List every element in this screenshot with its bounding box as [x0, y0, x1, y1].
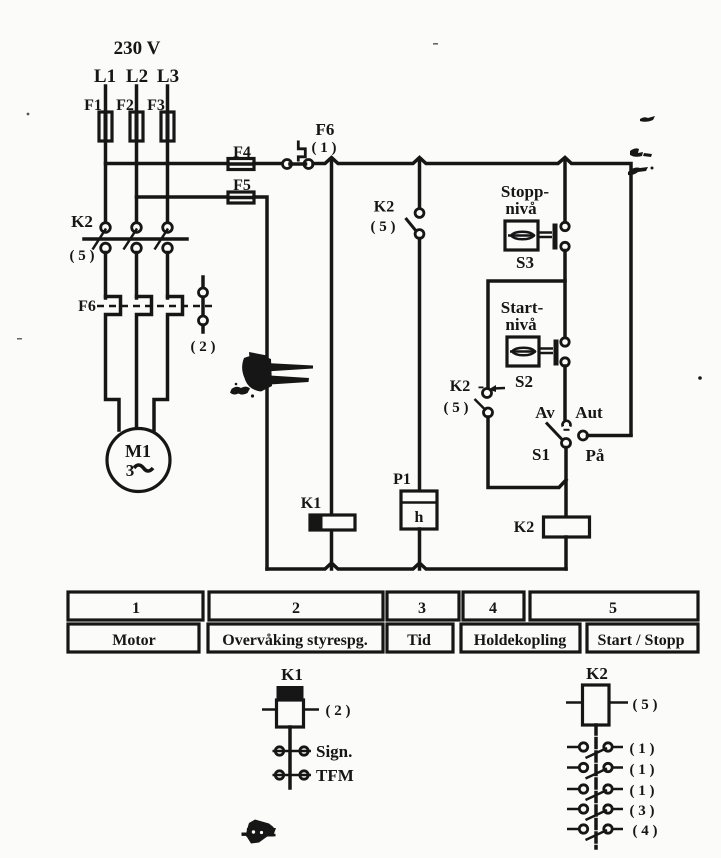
ink smudge center-left — [230, 352, 313, 398]
svg-text:nivå: nivå — [505, 315, 537, 334]
svg-text:L1: L1 — [94, 66, 116, 87]
coil K1 delayed — [277, 686, 304, 700]
svg-text:F6: F6 — [78, 298, 96, 315]
ink blob bottom left — [242, 820, 277, 844]
contact (1) c — [567, 783, 655, 800]
contact TFM — [275, 771, 283, 779]
svg-text:K1: K1 — [281, 665, 303, 684]
svg-text:Aut: Aut — [575, 403, 603, 422]
dashed linkage line — [594, 725, 598, 848]
svg-text:4: 4 — [489, 600, 497, 617]
wire holding contact down — [488, 417, 566, 488]
svg-text:K2: K2 — [374, 199, 394, 216]
wire L2 vertical — [135, 86, 139, 223]
dashed trip line — [97, 305, 216, 308]
wire bottom bus — [267, 563, 566, 569]
wire phases to overload — [104, 253, 108, 299]
wire branch L2 to F5 — [137, 195, 229, 199]
svg-text:P1: P1 — [393, 471, 411, 488]
table cell 4 — [463, 592, 524, 620]
svg-text:( 5 ): ( 5 ) — [70, 248, 95, 264]
slash pole3 — [155, 229, 169, 250]
wire F5 down left side of control circuit — [254, 197, 267, 569]
coil K2 — [583, 685, 610, 725]
svg-text:nivå: nivå — [505, 199, 537, 218]
svg-text:( 5 ): ( 5 ) — [444, 400, 469, 416]
table cell Start/Stopp — [587, 624, 698, 652]
wire P1 branch upper — [418, 161, 422, 208]
svg-text:S2: S2 — [515, 372, 533, 391]
svg-text:( 1 ): ( 1 ) — [630, 783, 655, 799]
table cell 1 — [68, 592, 203, 620]
svg-text:( 5 ): ( 5 ) — [633, 697, 658, 713]
svg-text:230 V: 230 V — [114, 38, 161, 59]
svg-text:TFM: TFM — [316, 766, 354, 785]
svg-text:Tid: Tid — [407, 632, 431, 649]
wire L1 vertical — [104, 86, 108, 223]
svg-text:K2: K2 — [71, 212, 93, 231]
table cell 3 — [387, 592, 459, 620]
wire L3 vertical — [166, 86, 170, 223]
wire F4 to F6 contact — [254, 162, 283, 166]
linkage bar K2 — [84, 237, 187, 241]
svg-text:h: h — [415, 509, 424, 526]
svg-text:2: 2 — [292, 600, 300, 617]
svg-text:L2: L2 — [126, 66, 148, 87]
wire contact to P1 — [418, 239, 422, 492]
wire K1 branch — [330, 161, 334, 569]
svg-text:Sign.: Sign. — [316, 742, 352, 761]
contactor K2 cross-reference symbol — [566, 664, 658, 848]
svg-text:Overvåking styrespg.: Overvåking styrespg. — [222, 632, 367, 649]
contact (1) b — [567, 762, 655, 779]
svg-text:( 1 ): ( 1 ) — [630, 762, 655, 778]
svg-text:( 4 ): ( 4 ) — [633, 823, 658, 839]
svg-text:5: 5 — [609, 600, 617, 617]
motor M1 — [107, 429, 170, 492]
contact F6 (2) aux — [201, 277, 205, 288]
svg-text:K2: K2 — [514, 519, 534, 536]
svg-text:F6: F6 — [316, 120, 335, 139]
selector S1 — [563, 366, 567, 420]
svg-text:På: På — [586, 446, 605, 465]
contact (4) — [567, 823, 658, 840]
svg-text:Motor: Motor — [112, 632, 156, 649]
wire P1 to bus — [418, 529, 422, 569]
wire S3 to branch T — [563, 251, 567, 339]
svg-text:( 5 ): ( 5 ) — [371, 219, 396, 235]
svg-text:( 1 ): ( 1 ) — [312, 140, 337, 156]
svg-text:( 1 ): ( 1 ) — [630, 741, 655, 757]
contact (3) — [567, 803, 655, 820]
slash pole2 — [124, 229, 138, 250]
relay K1 cross-reference symbol — [262, 665, 354, 788]
wire branch L1 to F4 — [106, 162, 229, 166]
table cell Motor — [68, 624, 199, 652]
wire branch to holding contact — [488, 281, 565, 388]
slash pole1 — [93, 229, 107, 250]
wire control top bus — [313, 158, 631, 435]
table cell Tid — [387, 624, 453, 652]
wire K2 coil to bottom bus — [564, 537, 568, 569]
svg-text:K2: K2 — [586, 664, 608, 683]
svg-text:1: 1 — [132, 600, 140, 617]
svg-text:( 3 ): ( 3 ) — [630, 803, 655, 819]
contact list line K1 — [288, 727, 292, 788]
wire S3 branch — [563, 161, 567, 222]
wire Aut to right rail — [588, 434, 632, 438]
table cell Holdekopling — [461, 624, 580, 652]
ink specks top right — [17, 43, 702, 380]
svg-text:3: 3 — [418, 600, 426, 617]
svg-text:( 2 ): ( 2 ) — [326, 703, 351, 719]
svg-text:Start / Stopp: Start / Stopp — [597, 632, 684, 649]
svg-text:K1: K1 — [301, 495, 321, 512]
svg-text:M1: M1 — [125, 441, 151, 461]
contact Sign. — [275, 747, 283, 755]
table cell 2 — [209, 592, 383, 620]
contact (1) a — [567, 741, 655, 758]
svg-text:S1: S1 — [532, 445, 550, 464]
svg-text:3: 3 — [126, 461, 135, 480]
reference table — [68, 592, 698, 652]
svg-text:S3: S3 — [516, 253, 534, 272]
table cell Overvaking — [208, 624, 383, 652]
svg-text:( 2 ): ( 2 ) — [191, 339, 216, 355]
svg-text:Holdekopling: Holdekopling — [474, 632, 566, 649]
table cell 5 — [530, 592, 698, 620]
svg-text:Av: Av — [535, 403, 555, 422]
svg-text:L3: L3 — [157, 66, 179, 87]
wire S1 to K2 coil — [564, 448, 568, 518]
svg-text:K2: K2 — [450, 378, 470, 395]
